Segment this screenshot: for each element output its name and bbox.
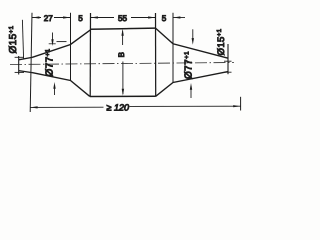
outlet pipe end face / Φ15 dimension line xyxy=(227,44,229,74)
svg-text:55: 55 xyxy=(118,14,128,23)
extension line at pipe/cone joint (long, spans 27 and >=120 dims) xyxy=(30,13,32,112)
svg-text:5: 5 xyxy=(162,14,167,23)
inlet pipe Φ15 upper tick xyxy=(15,56,24,58)
outlet cone bottom edge xyxy=(156,72,228,97)
svg-text:≥ 120: ≥ 120 xyxy=(107,102,129,112)
inlet pipe end face / Φ15 dimension line xyxy=(18,56,20,75)
svg-text:Ø15+1: Ø15+1 xyxy=(215,28,226,55)
small tick under left Φ77 down-arrow xyxy=(49,43,56,45)
top dimension line 55 segment xyxy=(91,17,156,19)
svg-text:27: 27 xyxy=(44,14,54,23)
body top edge xyxy=(91,28,156,29)
centerline (dash-dot axis) xyxy=(10,63,234,65)
inlet pipe Φ15 lower tick xyxy=(15,71,24,73)
outlet pipe Φ15 upper tick xyxy=(224,60,232,62)
right Φ77 up arrow xyxy=(190,90,192,99)
arrowhead left of >=120 xyxy=(30,106,37,108)
inlet pipe top edge xyxy=(19,57,32,59)
svg-text:Ø15+1: Ø15+1 xyxy=(8,25,19,53)
right Φ77 down arrow xyxy=(192,29,194,38)
arrowhead at right 5 xyxy=(173,16,180,18)
B vertical dimension upper shaft with up arrowhead xyxy=(122,31,124,46)
inlet pipe bottom edge xyxy=(19,71,32,73)
svg-text:5: 5 xyxy=(78,14,83,23)
arrowhead left of 27 xyxy=(32,16,39,18)
outlet cone top edge xyxy=(156,28,229,58)
extension line right end of >=120 xyxy=(240,97,242,111)
outlet pipe Φ15 lower tick xyxy=(224,71,232,73)
arrowhead right of >=120 xyxy=(233,105,240,107)
arrowhead right of 55 / second 5 xyxy=(148,16,155,18)
inlet cone top edge xyxy=(32,30,91,58)
arrowhead left of 55 / 5 xyxy=(91,16,98,18)
body left face xyxy=(89,13,91,97)
bottom dimension line >=120 xyxy=(30,106,240,107)
top dimension line 27 segment xyxy=(32,17,71,19)
tail of right 5 dimension xyxy=(173,17,185,19)
svg-text:B: B xyxy=(117,52,126,57)
extension line right cone kink (5 boundary) xyxy=(172,13,174,83)
B vertical dimension lower shaft with down arrowhead xyxy=(122,62,124,95)
label underline / leader line right of Φ15 label xyxy=(22,20,23,60)
left tick near Φ77 arrow xyxy=(57,41,67,43)
left Φ77 up arrow xyxy=(54,89,56,96)
svg-text:Ø77+1: Ø77+1 xyxy=(44,48,55,76)
extension line at cone kink (27/5 boundary) xyxy=(70,13,72,81)
inlet cone bottom edge xyxy=(32,73,90,97)
arrowhead right of 27 / 5 xyxy=(63,16,70,18)
body right face xyxy=(155,13,157,96)
body bottom edge xyxy=(90,95,156,97)
left Φ77 down arrow xyxy=(52,33,54,40)
svg-text:Ø77+1: Ø77+1 xyxy=(183,51,194,79)
